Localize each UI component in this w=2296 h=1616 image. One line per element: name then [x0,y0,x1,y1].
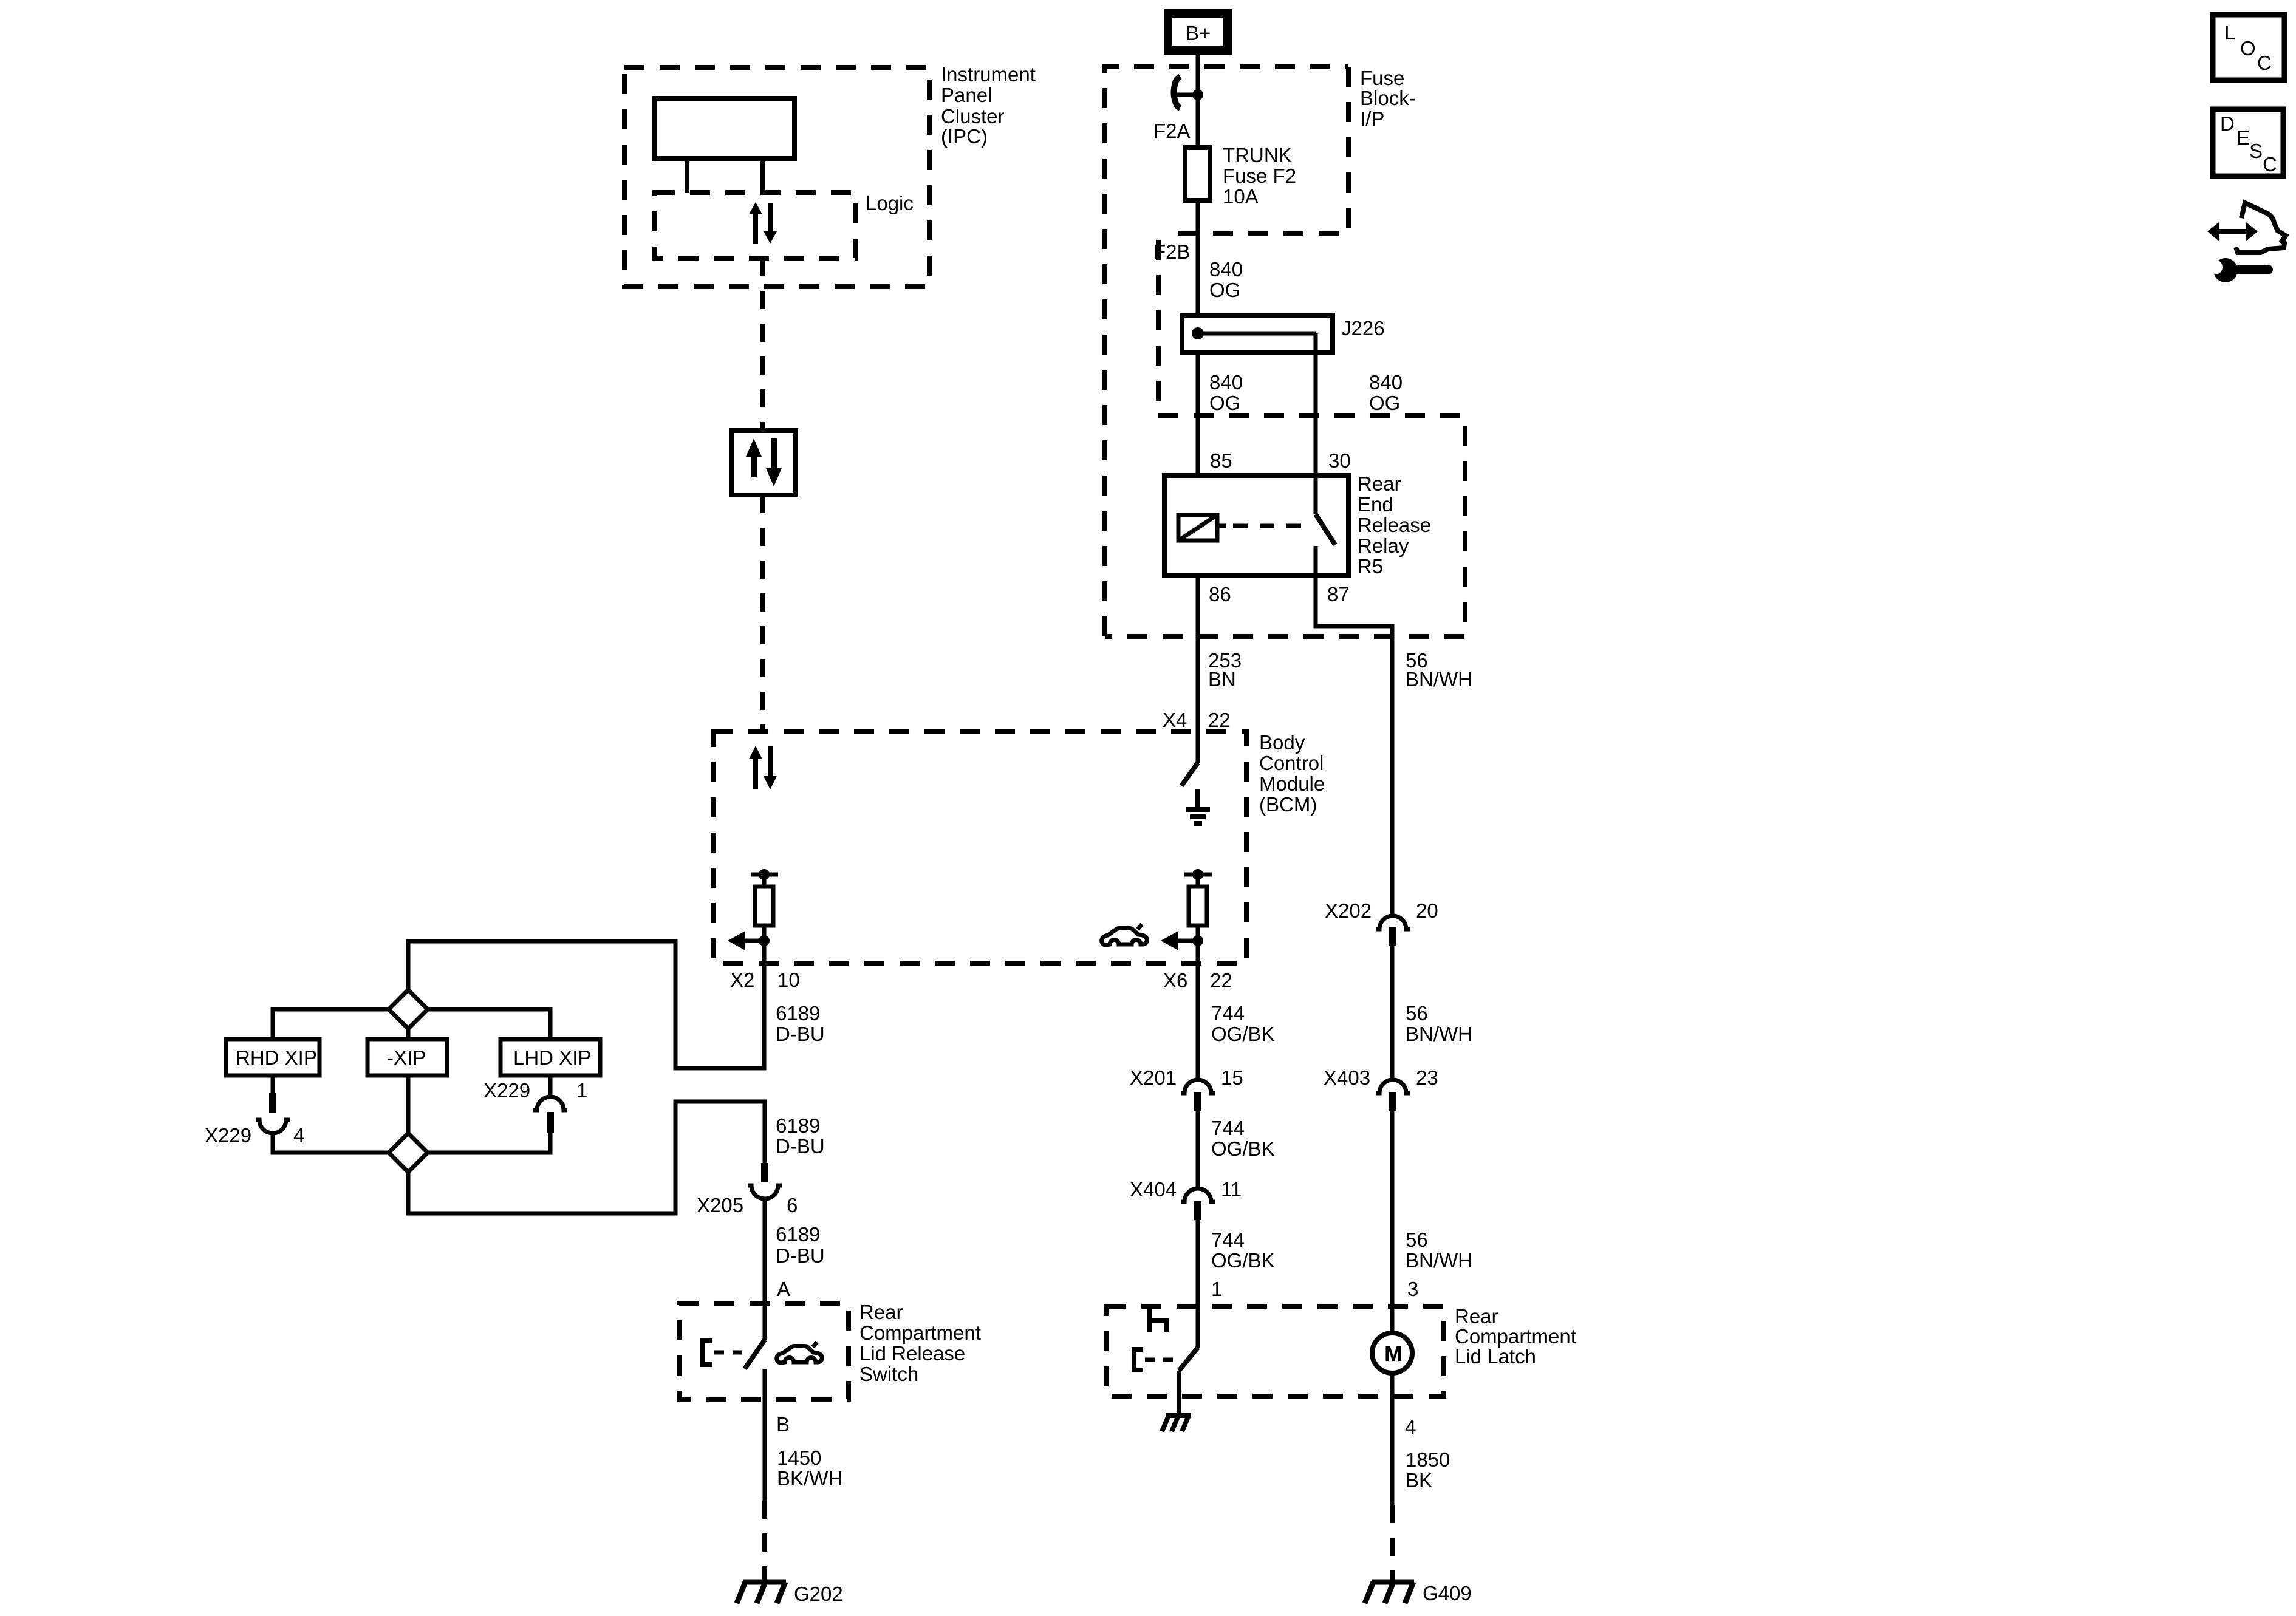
serial up arrow [746,438,762,477]
panel icon outline [2236,203,2286,253]
svg-text:10: 10 [777,969,800,991]
wire LHD to X229-1 [548,1076,553,1097]
svg-text:X229: X229 [205,1124,251,1147]
svg-text:Block-: Block- [1360,87,1416,109]
svg-text:4: 4 [293,1124,304,1147]
svg-text:840: 840 [1369,371,1403,394]
wire bottom diamond to X205 [408,1102,765,1213]
BCM X4 switch stub [1196,731,1200,763]
svg-text:56: 56 [1406,1229,1428,1251]
wire 86 down to BCM [1196,576,1200,731]
wire X202 to X403 [1390,946,1395,1078]
fuse clip hook [1174,77,1180,108]
fuse F2 [1185,148,1210,200]
DESC box [2213,109,2283,176]
wire J226 right leg down [1314,352,1318,476]
svg-text:3: 3 [1407,1278,1418,1300]
BCM down arrow [764,746,777,789]
BCM X4 switch blade [1181,763,1198,786]
wire leg right [760,159,765,193]
wire RHD to X229-4 [271,1076,275,1093]
ground G202 [737,1582,786,1603]
svg-text:6189: 6189 [776,1002,820,1024]
latch dashed link [1145,1358,1173,1362]
bottom diamond [389,1133,428,1172]
svg-text:11: 11 [1221,1178,1242,1201]
BCM left pullup T-bar [751,873,778,877]
svg-text:6189: 6189 [776,1223,820,1246]
motor M circle [1372,1333,1412,1373]
X202 connector 20 [1376,916,1410,929]
svg-text:Rear: Rear [1358,472,1401,495]
svg-text:Relay: Relay [1358,534,1409,557]
relay switch blade [1316,514,1335,545]
svg-text:X229: X229 [483,1079,530,1102]
junction dot F2A [1192,89,1203,100]
svg-text:Fuse: Fuse [1360,67,1404,89]
svg-text:X205: X205 [697,1194,743,1216]
BCM right pullup T-bar [1184,873,1212,877]
wire X201 to X404 [1196,1111,1200,1187]
BCM right output arrow [1178,939,1198,943]
svg-text:C: C [2257,52,2272,74]
svg-text:-XIP: -XIP [387,1046,426,1069]
svg-text:M: M [1384,1341,1403,1366]
Logic dashed box [655,193,855,258]
svg-text:15: 15 [1221,1066,1243,1089]
svg-text:86: 86 [1209,583,1231,605]
svg-text:LHD XIP: LHD XIP [513,1046,591,1069]
svg-text:4: 4 [1405,1416,1416,1438]
logic down arrow [764,203,777,244]
svg-text:X403: X403 [1324,1066,1370,1089]
svg-text:Switch: Switch [859,1363,918,1385]
svg-text:X6: X6 [1163,969,1187,992]
Fuse Block-I/P dashed outline [1105,67,1348,636]
junction dot X2 [759,935,770,946]
serial down arrow [766,438,782,486]
latch small ground [1162,1416,1191,1431]
svg-text:D: D [2220,112,2235,135]
latch bracket [1134,1349,1143,1370]
svg-text:G202: G202 [794,1583,843,1605]
top diamond [389,990,428,1029]
resistor right [1189,887,1207,926]
latch pawl symbol [1147,1308,1152,1332]
wire X403 to latch [1390,1111,1395,1333]
BCM dashed box [713,731,1246,963]
svg-text:56: 56 [1406,1002,1428,1024]
svg-text:840: 840 [1209,258,1243,281]
IPC dashed box [624,67,929,287]
svg-text:X4: X4 [1163,709,1187,731]
wire -XIP to bottom diamond [406,1076,411,1133]
junction dot X6 [1192,935,1203,946]
wire X404 to latch [1196,1220,1200,1348]
svg-text:Body: Body [1259,731,1305,754]
svg-text:X2: X2 [730,969,754,991]
svg-text:Instrument: Instrument [941,63,1036,86]
svg-text:F2B: F2B [1153,240,1191,263]
dashed wire to G202 [762,1501,767,1582]
svg-text:B+: B+ [1186,22,1211,44]
ground G409 [1365,1582,1414,1603]
relay switch pin30 stub [1314,476,1318,514]
resistor left [755,887,773,926]
svg-text:D-BU: D-BU [776,1135,825,1157]
svg-text:1: 1 [576,1079,587,1102]
svg-text:BN: BN [1208,668,1236,690]
wire diamond to LHD [428,1009,550,1039]
LHD XIP box [501,1039,600,1076]
svg-text:Logic: Logic [866,192,914,214]
svg-text:BN/WH: BN/WH [1406,1023,1472,1045]
svg-text:B: B [776,1413,790,1436]
svg-text:X202: X202 [1325,899,1372,922]
svg-text:A: A [777,1278,790,1300]
BCM signal ground [1195,789,1200,810]
svg-text:OG/BK: OG/BK [1211,1137,1275,1160]
svg-text:G409: G409 [1423,1582,1472,1604]
Rear Compartment Lid Release Switch dashed box [679,1304,849,1399]
wire X205 to switch [763,1199,767,1304]
relay coil-switch dashed link [1217,524,1226,528]
relay switch pin87 stub [1314,546,1318,576]
svg-text:Rear: Rear [859,1301,903,1323]
switch actuator dashed link [714,1351,742,1355]
serial data box [731,431,796,495]
switch wire A stub [763,1304,767,1340]
wire B+ to fuse [1196,55,1200,148]
svg-text:Panel: Panel [941,84,992,106]
RHD XIP box [226,1039,319,1076]
latch switch blade [1179,1348,1198,1371]
svg-text:22: 22 [1210,969,1232,992]
svg-text:Fuse F2: Fuse F2 [1223,165,1296,187]
svg-text:30: 30 [1328,449,1351,472]
svg-text:D-BU: D-BU [776,1023,825,1045]
wrench icon [2213,258,2273,282]
svg-text:OG: OG [1209,279,1240,301]
J226 splice pack [1182,315,1333,352]
svg-text:OG/BK: OG/BK [1211,1023,1275,1045]
-XIP box [367,1039,447,1076]
svg-text:E: E [2236,126,2250,149]
svg-text:Control: Control [1259,752,1324,774]
svg-text:(BCM): (BCM) [1259,793,1317,816]
svg-text:OG/BK: OG/BK [1211,1249,1275,1272]
svg-text:TRUNK: TRUNK [1223,144,1292,166]
svg-text:Compartment: Compartment [1455,1325,1576,1348]
svg-text:Cluster: Cluster [941,105,1005,128]
wire diamond to -XIP [406,1029,411,1039]
relay coil [1178,515,1217,540]
LOC box [2213,15,2284,80]
svg-text:23: 23 [1416,1066,1438,1089]
svg-text:C: C [2263,153,2277,176]
fuse clip bar [1175,93,1198,97]
svg-text:744: 744 [1211,1229,1245,1251]
wire X229-1 to bottom diamond [428,1133,550,1153]
BCM up arrow [749,746,762,789]
X403 connector 23 [1376,1080,1410,1093]
svg-text:O: O [2240,37,2256,60]
svg-text:I/P: I/P [1360,107,1384,130]
svg-text:End: End [1358,493,1393,516]
svg-text:D-BU: D-BU [776,1244,825,1267]
svg-text:X201: X201 [1130,1066,1177,1089]
X205 pin 6 [761,1163,768,1182]
svg-text:Module: Module [1259,772,1325,795]
wire J226 left leg down [1196,352,1200,476]
svg-text:6189: 6189 [776,1114,820,1137]
X404 connector 11 [1181,1188,1215,1202]
svg-text:840: 840 [1209,371,1243,394]
relay R5 solid box [1164,476,1348,576]
BCM left output arrow [745,939,764,943]
Rear End Release Relay dashed box [1105,415,1465,636]
wire leg left [685,159,689,193]
battery B+ box [1168,13,1228,50]
J226 harness left dashed edge [1156,240,1161,415]
svg-text:Rear: Rear [1455,1305,1498,1328]
wire F2B to J226 [1196,200,1200,315]
svg-text:BN/WH: BN/WH [1406,668,1472,690]
svg-text:6: 6 [787,1194,798,1216]
dashed wire to G409 [1390,1505,1395,1582]
svg-text:OG: OG [1369,392,1400,414]
X229 pin 1 [533,1097,567,1110]
junction dot J226 [1192,327,1204,339]
motor lower wire [1390,1373,1395,1505]
switch actuator bracket [702,1341,712,1365]
svg-text:744: 744 [1211,1002,1245,1024]
svg-text:85: 85 [1210,449,1232,472]
svg-text:744: 744 [1211,1117,1245,1139]
svg-text:BN/WH: BN/WH [1406,1249,1472,1272]
svg-text:10A: 10A [1223,185,1259,208]
svg-text:X404: X404 [1130,1178,1177,1201]
switch blade [745,1340,765,1369]
svg-text:BK: BK [1406,1469,1432,1492]
wire X6 to X201 [1196,963,1200,1078]
X229 pin 4 [269,1093,276,1113]
svg-text:1450: 1450 [777,1447,821,1469]
svg-text:R5: R5 [1358,555,1383,578]
wire 87 to X202 [1316,576,1392,914]
svg-text:S: S [2249,140,2263,162]
car icon BCM [1102,924,1147,945]
svg-text:Compartment: Compartment [859,1321,981,1344]
svg-text:BK/WH: BK/WH [777,1467,842,1490]
svg-text:87: 87 [1327,583,1350,605]
dashed wire serial box to BCM [760,495,765,731]
Rear Compartment Lid Latch dashed box [1106,1306,1444,1396]
wire B down [763,1399,767,1501]
panel icon double arrow [2207,222,2258,241]
svg-text:Lid Latch: Lid Latch [1455,1345,1536,1368]
svg-text:(IPC): (IPC) [941,125,988,148]
latch switch lower wire [1177,1371,1181,1414]
wire X229-4 to bottom diamond [273,1133,389,1153]
svg-text:OG: OG [1209,392,1240,414]
car icon switch [777,1342,822,1363]
IPC display rect [654,98,794,159]
svg-text:J226: J226 [1341,317,1385,339]
svg-text:Lid Release: Lid Release [859,1342,965,1365]
dashed wire IPC to serial box [760,258,765,431]
svg-text:F2A: F2A [1153,120,1191,142]
svg-text:RHD XIP: RHD XIP [236,1046,317,1069]
wire diamond to RHD [273,1009,389,1039]
switch lower stub [763,1369,767,1399]
svg-text:1850: 1850 [1406,1448,1450,1471]
svg-text:L: L [2224,21,2235,44]
svg-text:1: 1 [1211,1278,1222,1300]
svg-text:Release: Release [1358,514,1431,536]
logic up arrow [749,202,762,244]
svg-text:20: 20 [1416,899,1438,922]
wire X2 to XIP network [408,941,764,1068]
svg-text:22: 22 [1208,709,1231,731]
X201 connector 15 [1181,1080,1215,1093]
